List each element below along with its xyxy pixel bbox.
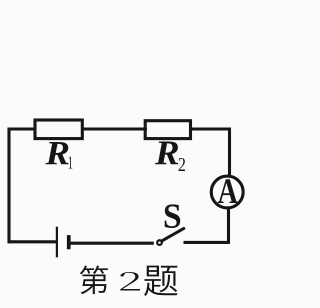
wire: switch to battery — [70, 242, 154, 245]
switch S — [157, 228, 184, 245]
ammeter A — [211, 176, 243, 208]
wire: battery to bottom-left corner — [8, 240, 56, 243]
wire: bottom-right horizontal to switch — [184, 241, 230, 244]
caption 第2题 — [80, 266, 178, 296]
wire: ammeter to bottom-right corner — [227, 209, 230, 244]
resistor R1 — [35, 120, 82, 139]
wire: right vertical down to ammeter — [228, 128, 231, 176]
label R1 — [45, 142, 72, 169]
wire: R2 to top-right corner — [189, 127, 231, 130]
wire: R1 to R2 — [81, 127, 147, 130]
label S — [165, 204, 181, 228]
wire: left vertical — [7, 128, 10, 244]
label R2 — [155, 142, 185, 171]
battery cell — [57, 227, 71, 258]
wire: top-left horizontal to R1 — [8, 127, 36, 130]
resistor R2 — [145, 121, 190, 139]
